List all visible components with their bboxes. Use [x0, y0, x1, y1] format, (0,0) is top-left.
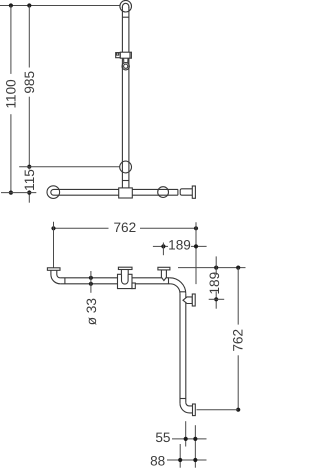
dim 55/88 extension lines [185, 421, 187, 446]
dim dot 1100 bottom [9, 191, 13, 195]
dim line 985 vertical [28, 6, 30, 68]
dim 189 horizontal [153, 245, 168, 247]
left elbow inner [57, 270, 60, 278]
dim dot 985 top [27, 3, 31, 7]
tick 189 vertical bottom [209, 298, 225, 300]
upper pipe support plate [192, 294, 195, 306]
horizontal rail left segment with rounded cap [51, 189, 119, 195]
shower rail vertical tube [121, 7, 123, 188]
dim dot 985 bottom [27, 165, 31, 169]
support T plan at 163 [161, 270, 166, 281]
joint line above junction block [122, 180, 128, 182]
right collar [180, 189, 192, 195]
dim line 1100 vertical [10, 6, 12, 74]
slider bracket knob [116, 53, 121, 58]
ring top outer [120, 0, 132, 12]
slider bracket body [120, 52, 131, 58]
slider knob detail [116, 53, 118, 55]
lower support circle on shower rail [120, 161, 132, 173]
right wall plate [192, 186, 195, 198]
bottom elbow outer [180, 403, 193, 413]
holder ring inner [124, 64, 128, 68]
holder ring outer [122, 62, 129, 69]
plan rail lines [60, 277, 117, 279]
pipe vertical lines [179, 294, 181, 404]
svg-text:115: 115 [22, 169, 37, 191]
rail joint before elbow [168, 278, 170, 284]
junction block [119, 188, 133, 198]
ring top inner cap [122, 3, 128, 8]
left joint line [64, 278, 66, 284]
svg-text:1100: 1100 [3, 79, 18, 109]
bottom elbow inner [186, 403, 193, 406]
extension line corner wall [195, 222, 197, 284]
svg-text:762: 762 [231, 329, 246, 352]
bottom reference line [197, 409, 239, 411]
svg-text:ø 33: ø 33 [84, 298, 99, 325]
stub above dot [215, 256, 217, 267]
bottom flange plate [193, 404, 196, 416]
slider bracket plan U [122, 274, 129, 284]
dim 762 vertical [237, 268, 239, 325]
svg-text:985: 985 [22, 71, 37, 94]
svg-text:55: 55 [155, 430, 170, 445]
extension line at shower support level [19, 166, 119, 168]
rail end joint [177, 189, 179, 195]
left flange plan plate [47, 268, 60, 271]
dim 189 vertical [215, 268, 217, 275]
elbow top-right outer [170, 278, 186, 294]
dim top horizontal line [0, 5, 120, 7]
svg-text:762: 762 [113, 220, 136, 235]
dim 762 horizontal [54, 227, 109, 229]
joint line below ring [122, 16, 128, 18]
svg-text:189: 189 [168, 238, 191, 253]
wall reference line [178, 267, 246, 269]
slider bracket plan stem [120, 270, 122, 275]
extension line at rail axis [1, 192, 36, 194]
left elbow outer [51, 270, 60, 284]
dim dot 1100 top [9, 3, 13, 7]
pipe joint upper [180, 291, 186, 293]
dim dot 115 bottom [27, 191, 31, 195]
dia 33 leader [90, 271, 92, 293]
slider bracket plan tab [132, 283, 135, 289]
holder neck [123, 58, 125, 63]
horizontal rail right segment [132, 188, 178, 190]
upper pipe support stem [183, 297, 192, 304]
pipe joint lower [180, 398, 186, 400]
svg-text:88: 88 [150, 453, 165, 468]
dim 88 [167, 459, 207, 461]
left rosette flange [47, 186, 60, 199]
slider bracket plan block [118, 274, 133, 288]
dia 33 dots [89, 276, 93, 280]
tick 189 left [162, 243, 164, 256]
support circle on horizontal rail [158, 187, 169, 198]
slider body inner line [129, 52, 131, 58]
svg-text:189: 189 [207, 272, 222, 295]
dim 55 [172, 438, 207, 440]
extension line left flange [53, 222, 55, 268]
slider bracket plan plate [118, 267, 132, 269]
dim line 115 vertical [28, 167, 30, 170]
elbow top-right inner [170, 284, 180, 294]
